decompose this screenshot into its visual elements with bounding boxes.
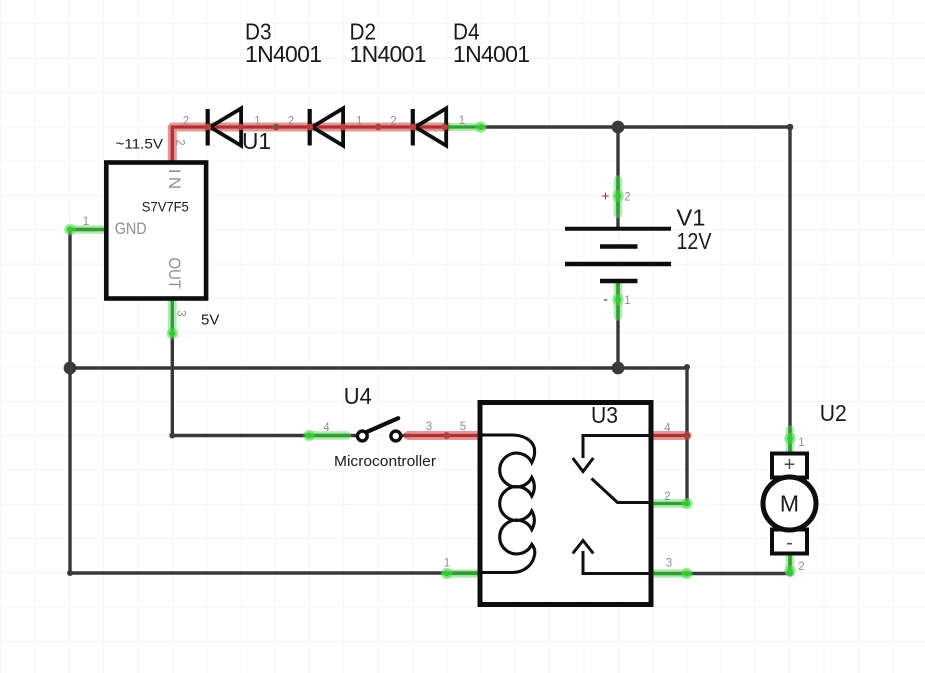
motor U2 [763, 454, 816, 554]
relay U3 moving contact blade [592, 479, 652, 503]
svg-text:2: 2 [798, 561, 804, 573]
svg-text:2: 2 [183, 116, 189, 128]
U1 reference label [242, 128, 271, 154]
corner dot relay pin2 branch [684, 364, 690, 370]
wire green U1 pin1 GND [64, 224, 104, 236]
svg-text:12V: 12V [677, 228, 713, 254]
svg-text:+: + [601, 188, 609, 204]
wire ground left vertical [68, 230, 71, 574]
diode D3 [208, 108, 241, 145]
svg-text:1: 1 [83, 216, 89, 228]
wire green relay pin3 [651, 568, 693, 580]
svg-text:+: + [784, 454, 796, 476]
wire relay pin3 to motor [651, 556, 790, 574]
U2 pin2 number [798, 561, 804, 573]
label D3 1N4001 [245, 19, 322, 68]
U1 value S7V7F5 [142, 200, 189, 215]
svg-text:1N4001: 1N4001 [453, 41, 530, 67]
junction node battery- ground [612, 362, 625, 375]
svg-text:4: 4 [323, 422, 330, 434]
battery reference label V1 12V [677, 204, 713, 254]
diode D4 [413, 108, 446, 145]
svg-text:1: 1 [798, 437, 804, 449]
diode pin numbers top row [183, 115, 465, 128]
wire bottom ground run [70, 571, 481, 574]
wire battery bottom [616, 281, 619, 368]
battery pin1 number [624, 295, 630, 307]
relay U3 box [480, 403, 651, 605]
U1 pin name GND [115, 219, 147, 238]
svg-text:2: 2 [624, 192, 630, 204]
label D4 1N4001 [453, 19, 530, 68]
wire red AC input net (diode chain) [169, 127, 447, 166]
svg-text:U4: U4 [344, 383, 372, 409]
svg-text:S7V7F5: S7V7F5 [142, 200, 189, 215]
svg-text:-: - [786, 532, 793, 554]
U2 reference label [820, 400, 847, 426]
U2 plus terminal mark [784, 454, 796, 476]
svg-text:GND: GND [115, 219, 147, 238]
wire green motor pin1 [784, 430, 796, 452]
node label ~11.5V [116, 136, 164, 152]
wire green relay pin2 [651, 498, 693, 510]
node label 5V [201, 312, 219, 329]
svg-text:1N4001: 1N4001 [245, 41, 322, 67]
U1 pin name IN [165, 169, 184, 189]
svg-text:1: 1 [254, 116, 260, 128]
diode chain pin connection dots [204, 124, 448, 131]
svg-text:1: 1 [356, 116, 362, 128]
U3 pin numbers [444, 423, 672, 570]
voltage regulator U1 box [106, 163, 206, 299]
wire green top net pin1 of D4 [447, 121, 487, 133]
svg-text:Microcontroller: Microcontroller [334, 453, 436, 470]
wire red relay pin4 [651, 432, 690, 439]
corner dot bottom left [67, 570, 73, 576]
U4 pin4 number [323, 422, 330, 434]
svg-text:IN: IN [165, 169, 184, 189]
svg-text:3: 3 [426, 421, 432, 433]
wire green battery pin2 [612, 180, 624, 215]
wire green switch pin4 [303, 430, 347, 442]
svg-text:U1: U1 [242, 128, 271, 154]
U2 motor M mark [780, 491, 799, 517]
svg-text:V1: V1 [677, 204, 706, 230]
svg-text:3: 3 [666, 557, 672, 569]
svg-text:1N4001: 1N4001 [350, 41, 427, 67]
wire green motor pin2 [784, 556, 796, 577]
svg-text:5V: 5V [201, 312, 219, 329]
svg-text:1: 1 [459, 115, 465, 127]
wire relay pin2 drop [685, 367, 688, 504]
corner dot bottom right [787, 570, 793, 576]
wire motor pin1 drop [788, 127, 791, 452]
wire ground horizontal [70, 366, 687, 369]
svg-text:1: 1 [624, 295, 630, 307]
junction node battery+ top [612, 121, 625, 134]
svg-text:U2: U2 [820, 400, 847, 426]
svg-text:2: 2 [390, 116, 396, 128]
svg-text:~11.5V: ~11.5V [116, 136, 164, 152]
switch U4 [357, 418, 400, 441]
wire net5V vertical from U1 OUT [171, 334, 174, 436]
svg-text:5: 5 [460, 421, 466, 433]
wire green U1 pin3 OUT [167, 300, 179, 340]
svg-text:4: 4 [664, 423, 671, 435]
relay U3 normally-open contact [573, 541, 651, 574]
battery polarity plus [601, 188, 609, 204]
relay U3 coil [482, 435, 535, 573]
wire green battery pin1 [612, 283, 624, 317]
diode D2 [310, 108, 343, 145]
relay U3 contact common arm [573, 436, 651, 472]
wire battery top [616, 127, 619, 229]
wire top net diodes to motor [479, 125, 790, 128]
svg-text:U3: U3 [591, 402, 618, 428]
corner dot top right [787, 124, 794, 131]
label D2 1N4001 [350, 19, 427, 68]
wire switch to relay stub [70, 230, 410, 436]
wire net5V horizontal to switch [171, 434, 358, 437]
svg-text:M: M [780, 491, 799, 517]
wire green relay pin1 [441, 568, 481, 580]
svg-text:2: 2 [664, 491, 670, 503]
U4 reference label [344, 383, 372, 409]
svg-text:1: 1 [444, 557, 450, 569]
svg-text:OUT: OUT [165, 258, 184, 290]
svg-text:2: 2 [288, 116, 294, 128]
U1 pin name OUT [165, 258, 184, 290]
corner dot 5V bend [169, 433, 175, 439]
U1 pin2 number rotated [174, 139, 186, 145]
junction node ground left [64, 362, 77, 375]
svg-text:3: 3 [175, 310, 187, 316]
battery pin2 number [624, 192, 630, 204]
U4 value Microcontroller [334, 453, 436, 470]
battery V1 [565, 229, 671, 281]
battery polarity minus [603, 291, 608, 307]
wire red microcontroller to relay pin5 [408, 432, 483, 439]
U2 pin1 number [798, 437, 804, 449]
U1 pin1 number [83, 216, 89, 228]
U3 reference label [591, 402, 618, 428]
svg-text:-: - [603, 291, 608, 307]
U2 minus terminal mark [786, 532, 793, 554]
relay U3 pin5 number [460, 421, 466, 433]
U4 pin3 number [426, 421, 432, 433]
svg-text:2: 2 [174, 139, 186, 145]
U1 pin3 number rotated [175, 310, 187, 316]
